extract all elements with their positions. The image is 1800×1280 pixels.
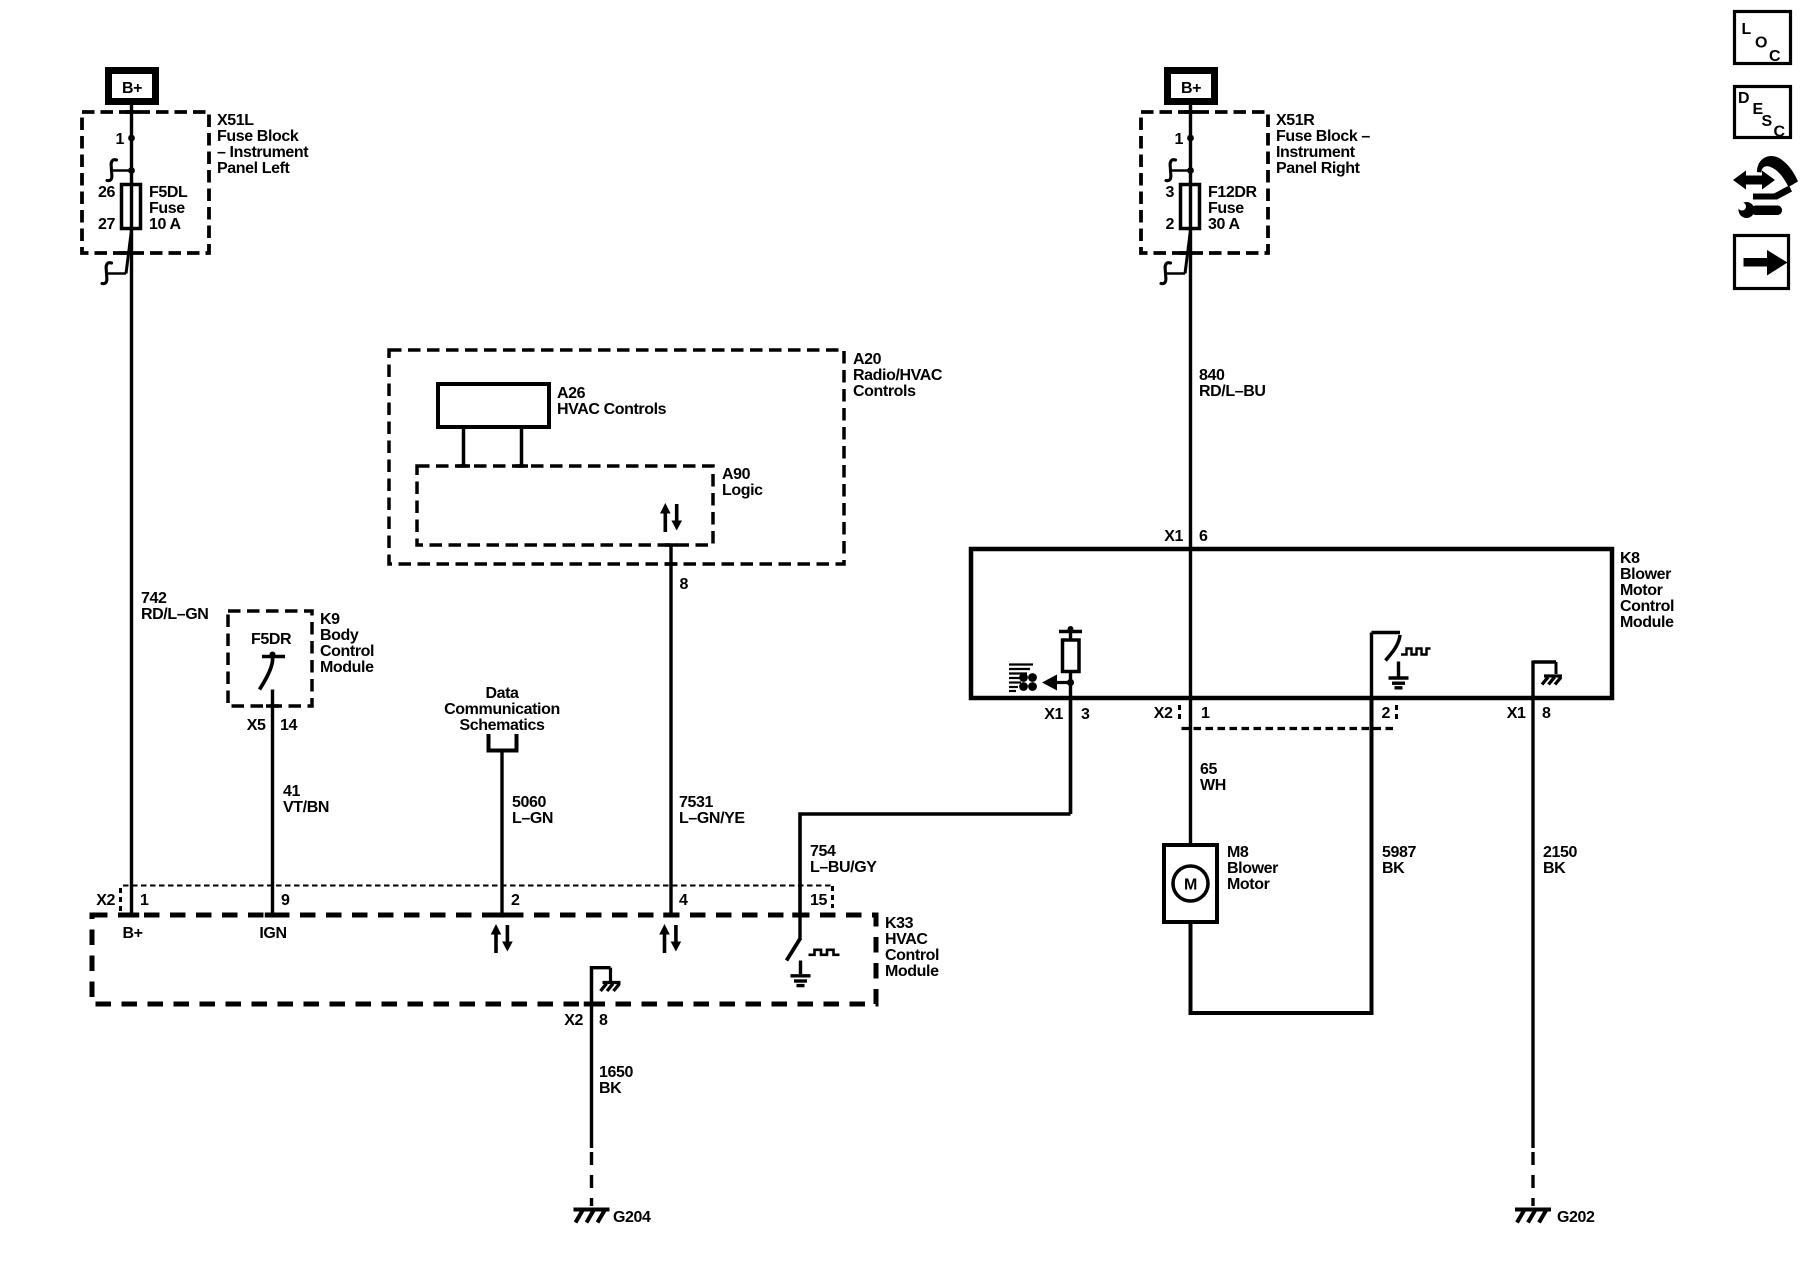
svg-text:1650: 1650 (599, 1064, 633, 1081)
svg-text:X2: X2 (564, 1012, 583, 1029)
svg-text:4: 4 (679, 892, 688, 909)
svg-text:C: C (1769, 48, 1781, 65)
svg-text:K33: K33 (885, 915, 914, 932)
svg-text:X2: X2 (96, 892, 115, 909)
svg-text:Fuse Block –: Fuse Block – (1276, 128, 1370, 145)
svg-text:Controls: Controls (853, 383, 916, 400)
svg-text:Data: Data (485, 685, 519, 702)
svg-text:G204: G204 (613, 1209, 651, 1226)
svg-text:RD/L–BU: RD/L–BU (1199, 383, 1266, 400)
svg-text:6: 6 (1199, 528, 1208, 545)
svg-text:1: 1 (140, 892, 149, 909)
svg-text:Body: Body (320, 627, 359, 644)
svg-text:Instrument: Instrument (1276, 144, 1356, 161)
svg-text:IGN: IGN (259, 925, 286, 942)
svg-text:26: 26 (98, 184, 115, 201)
svg-text:HVAC: HVAC (885, 931, 928, 948)
svg-text:L–GN: L–GN (512, 810, 553, 827)
svg-text:1: 1 (1201, 705, 1210, 722)
svg-text:F12DR: F12DR (1208, 184, 1258, 201)
svg-text:Control: Control (885, 947, 939, 964)
svg-text:X1: X1 (1164, 528, 1183, 545)
svg-text:8: 8 (1542, 705, 1551, 722)
svg-text:Fuse: Fuse (1208, 200, 1244, 217)
svg-text:41: 41 (283, 783, 300, 800)
svg-text:Module: Module (320, 659, 374, 676)
svg-text:C: C (1774, 124, 1786, 141)
svg-text:L–GN/YE: L–GN/YE (679, 810, 745, 827)
svg-text:5987: 5987 (1382, 844, 1416, 861)
svg-text:BK: BK (1382, 860, 1405, 877)
svg-text:Logic: Logic (722, 482, 763, 499)
svg-text:L–BU/GY: L–BU/GY (810, 859, 877, 876)
svg-text:X51L: X51L (217, 112, 254, 129)
svg-text:X1: X1 (1044, 706, 1063, 723)
svg-text:B+: B+ (1181, 80, 1201, 97)
svg-text:Module: Module (1620, 614, 1674, 631)
svg-text:Control: Control (320, 643, 374, 660)
svg-text:BK: BK (1543, 860, 1566, 877)
svg-text:M: M (1184, 877, 1197, 894)
svg-text:M8: M8 (1227, 844, 1249, 861)
svg-text:9: 9 (281, 892, 290, 909)
svg-text:BK: BK (599, 1080, 622, 1097)
svg-text:2: 2 (1166, 216, 1175, 233)
svg-text:S: S (1762, 113, 1773, 130)
svg-text:30 A: 30 A (1208, 216, 1240, 233)
svg-text:Schematics: Schematics (460, 717, 545, 734)
svg-text:A20: A20 (853, 351, 882, 368)
svg-text:2150: 2150 (1543, 844, 1577, 861)
svg-text:X2: X2 (1154, 705, 1173, 722)
svg-text:3: 3 (1166, 184, 1175, 201)
svg-text:Blower: Blower (1620, 566, 1671, 583)
svg-text:2: 2 (511, 892, 520, 909)
svg-text:F5DR: F5DR (251, 631, 292, 648)
svg-text:G202: G202 (1557, 1209, 1595, 1226)
svg-text:Fuse Block: Fuse Block (217, 128, 299, 145)
svg-text:Control: Control (1620, 598, 1674, 615)
svg-text:B+: B+ (122, 80, 142, 97)
svg-text:Panel Left: Panel Left (217, 160, 291, 177)
svg-text:F5DL: F5DL (149, 184, 188, 201)
svg-text:L: L (1742, 21, 1752, 38)
svg-text:1: 1 (116, 131, 125, 148)
svg-text:X51R: X51R (1276, 112, 1315, 129)
svg-text:VT/BN: VT/BN (283, 799, 329, 816)
svg-text:– Instrument: – Instrument (217, 144, 309, 161)
svg-text:WH: WH (1200, 777, 1226, 794)
svg-text:K8: K8 (1620, 550, 1640, 567)
svg-text:5060: 5060 (512, 794, 546, 811)
svg-text:Blower: Blower (1227, 860, 1278, 877)
svg-text:Module: Module (885, 963, 939, 980)
svg-text:A90: A90 (722, 466, 751, 483)
svg-text:Panel Right: Panel Right (1276, 160, 1361, 177)
svg-text:14: 14 (280, 717, 297, 734)
svg-text:Radio/HVAC: Radio/HVAC (853, 367, 943, 384)
svg-text:15: 15 (810, 892, 827, 909)
svg-text:A26: A26 (557, 385, 586, 402)
svg-text:8: 8 (680, 576, 689, 593)
svg-text:754: 754 (810, 843, 836, 860)
svg-text:X1: X1 (1507, 705, 1526, 722)
svg-text:O: O (1755, 35, 1767, 52)
svg-text:840: 840 (1199, 367, 1225, 384)
svg-text:Motor: Motor (1620, 582, 1663, 599)
svg-text:Fuse: Fuse (149, 200, 185, 217)
svg-text:B+: B+ (122, 925, 142, 942)
svg-text:Motor: Motor (1227, 876, 1270, 893)
svg-text:K9: K9 (320, 611, 340, 628)
svg-text:27: 27 (98, 216, 115, 233)
svg-text:X5: X5 (247, 717, 266, 734)
svg-text:7531: 7531 (679, 794, 713, 811)
svg-text:10 A: 10 A (149, 216, 181, 233)
svg-text:8: 8 (599, 1012, 608, 1029)
svg-text:65: 65 (1200, 761, 1217, 778)
svg-text:742: 742 (141, 590, 167, 607)
svg-text:3: 3 (1081, 706, 1090, 723)
svg-text:RD/L–GN: RD/L–GN (141, 606, 208, 623)
svg-text:1: 1 (1175, 131, 1184, 148)
svg-text:Communication: Communication (444, 701, 560, 718)
svg-text:D: D (1738, 90, 1749, 107)
svg-text:2: 2 (1382, 705, 1391, 722)
svg-text:HVAC Controls: HVAC Controls (557, 401, 667, 418)
